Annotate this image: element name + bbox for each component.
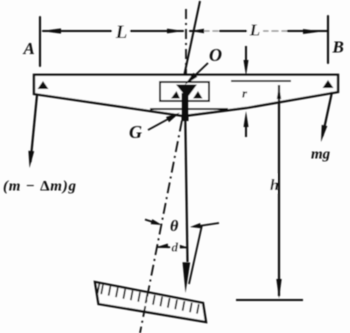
svg-text:A: A [23,39,35,58]
svg-text:(m − Δm)g: (m − Δm)g [3,179,77,195]
svg-text:h: h [270,177,279,194]
svg-text:L: L [115,22,128,43]
svg-text:B: B [332,38,344,57]
svg-text:G: G [129,122,142,142]
svg-text:L: L [249,21,260,40]
svg-text:O: O [209,45,222,65]
svg-text:mg: mg [311,147,331,163]
svg-text:d: d [172,240,179,255]
svg-text:θ: θ [170,218,179,235]
